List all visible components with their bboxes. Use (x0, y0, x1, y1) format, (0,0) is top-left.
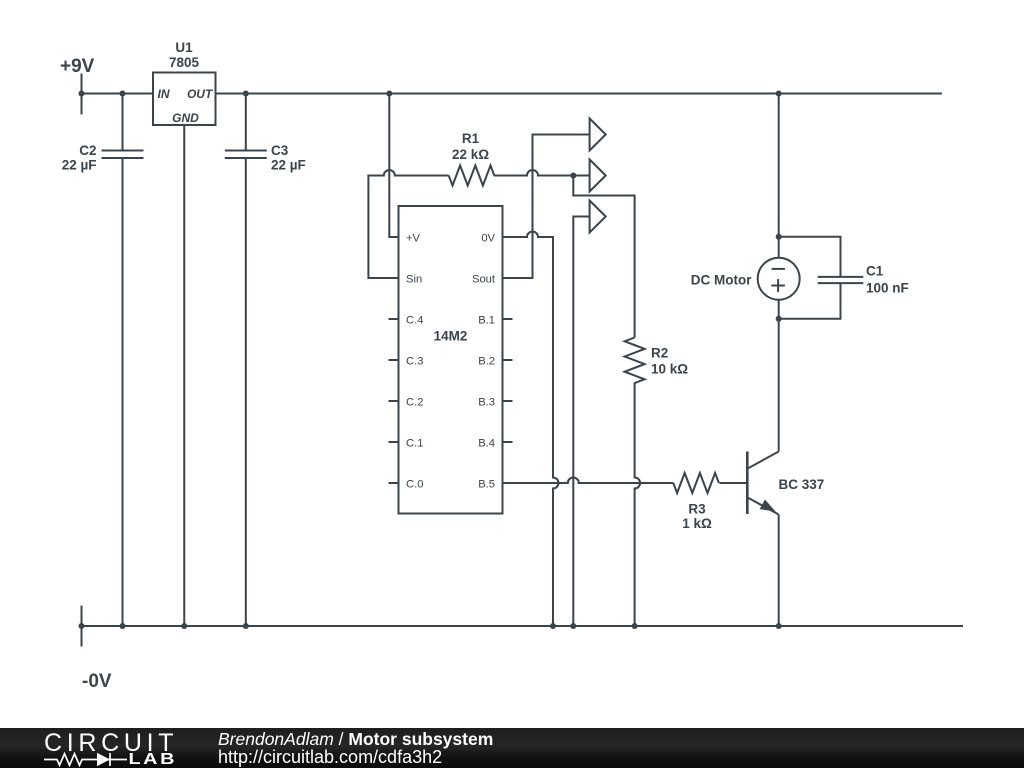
wire 0V pin to bottom rail (hop over Sout riser) (503, 232, 559, 627)
buffer arrow 3 (590, 201, 606, 233)
node dot 0V rail (550, 623, 556, 629)
buffer arrow 2 (590, 160, 606, 192)
wire motor bottom to node (778, 300, 780, 319)
wire top rail down to motor top (778, 94, 780, 258)
node dot R2 rail (632, 623, 638, 629)
motor plus sign (771, 279, 785, 292)
svg-text:LAB: LAB (129, 750, 177, 767)
wire R1 left to Sin pin (with hop over +V wire) (368, 170, 448, 278)
capacitor C2 (102, 94, 144, 627)
wire bottom rail (82, 625, 964, 627)
IC 14M2 box (399, 206, 503, 514)
resistor R3 (673, 473, 719, 493)
capacitor C3 (225, 94, 267, 627)
logo resistor-diode glyph (44, 753, 127, 766)
capacitor C1 loop wires (779, 237, 841, 319)
logo diode triangle (97, 753, 110, 766)
terminal +9V stub (81, 74, 83, 115)
node dot U1 GND bottom (181, 623, 187, 629)
terminal -0V stub (81, 606, 83, 647)
pin stub B.1 (503, 318, 513, 320)
node dot motor rail (776, 91, 782, 97)
resistor R2 (625, 338, 645, 384)
wire top rail right of U1 (216, 93, 943, 95)
capacitor C1 plates (818, 277, 864, 283)
transistor Q1 BC 337 (747, 452, 778, 515)
wire collector up to motor bottom (778, 319, 780, 452)
motor M1 circle (758, 258, 800, 300)
resistor R1 (449, 166, 495, 186)
pin stub C.4 (389, 318, 399, 320)
node dot +V riser (386, 91, 392, 97)
wire B.5 to R3 (hops over three vertical wires) (503, 478, 674, 484)
wire emitter down to bottom rail (778, 515, 780, 627)
node dot motor bottom (776, 316, 782, 322)
node dot C2 top (120, 91, 126, 97)
node dot -0V terminal (79, 623, 85, 629)
wire node to R2 top (573, 176, 634, 338)
pin stub C.0 (389, 482, 399, 484)
pin stub B.2 (503, 359, 513, 361)
wire +V supply: rail down to IC +V pin (389, 94, 398, 238)
node dot C3 bottom (243, 623, 249, 629)
wire R3 to transistor base (720, 482, 748, 484)
node dot R1 output (570, 173, 576, 179)
voltage regulator U1 box (153, 73, 216, 126)
pin stub B.4 (503, 441, 513, 443)
wire R2 bottom to bottom rail (635, 383, 641, 627)
node dot +9V terminal (79, 91, 85, 97)
motor minus sign (772, 268, 785, 270)
buffer arrow 1 (590, 119, 606, 151)
footer bar (0, 728, 1024, 768)
node dot buffer3 rail (570, 623, 576, 629)
wire top rail left of U1 (82, 93, 154, 95)
pin stub C.3 (389, 359, 399, 361)
wire Sout pin up to buffer 1 input (503, 135, 590, 279)
pin stub C.1 (389, 441, 399, 443)
node dot C2 bottom (120, 623, 126, 629)
pin stub B.3 (503, 400, 513, 402)
pin stub C.2 (389, 400, 399, 402)
node dot C3 top (243, 91, 249, 97)
node dot emitter rail (776, 623, 782, 629)
wire R1 right to node (hop over Sout riser) (494, 170, 590, 176)
wire U1 GND to bottom rail (183, 125, 185, 626)
svg-text:http://circuitlab.com/cdfa3h2: http://circuitlab.com/cdfa3h2 (218, 747, 442, 767)
svg-text:BrendonAdlam / Motor subsystem: BrendonAdlam / Motor subsystem (218, 729, 493, 749)
wire buffer 3 input down to bottom rail (573, 217, 589, 627)
node dot motor top (776, 234, 782, 240)
